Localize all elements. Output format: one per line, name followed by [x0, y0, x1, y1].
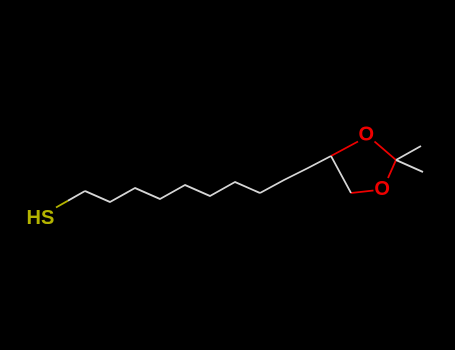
ring bond O1-C2 (red)	[375, 142, 397, 161]
chain rising run C8-C9-C10-C4ring	[260, 156, 331, 193]
svg-text:O: O	[374, 178, 390, 200]
ring bond C5-C4 (carbon)	[331, 156, 351, 193]
ring bond O3-C5 (red)	[351, 191, 374, 194]
chain zigzag C1..C8	[85, 182, 260, 202]
svg-text:O: O	[359, 124, 375, 146]
svg-text:HS: HS	[27, 207, 55, 229]
bond S-C1 carbon half	[68, 191, 85, 201]
ring bond C2-O3 (red)	[388, 160, 396, 178]
methyl bond C2-CH3 upper	[396, 146, 421, 160]
methyl bond C2-CH3 lower	[396, 160, 423, 172]
bond S-C1 sulfur-colored half	[56, 201, 68, 208]
ring bond C4-O1 (red)	[331, 142, 358, 157]
